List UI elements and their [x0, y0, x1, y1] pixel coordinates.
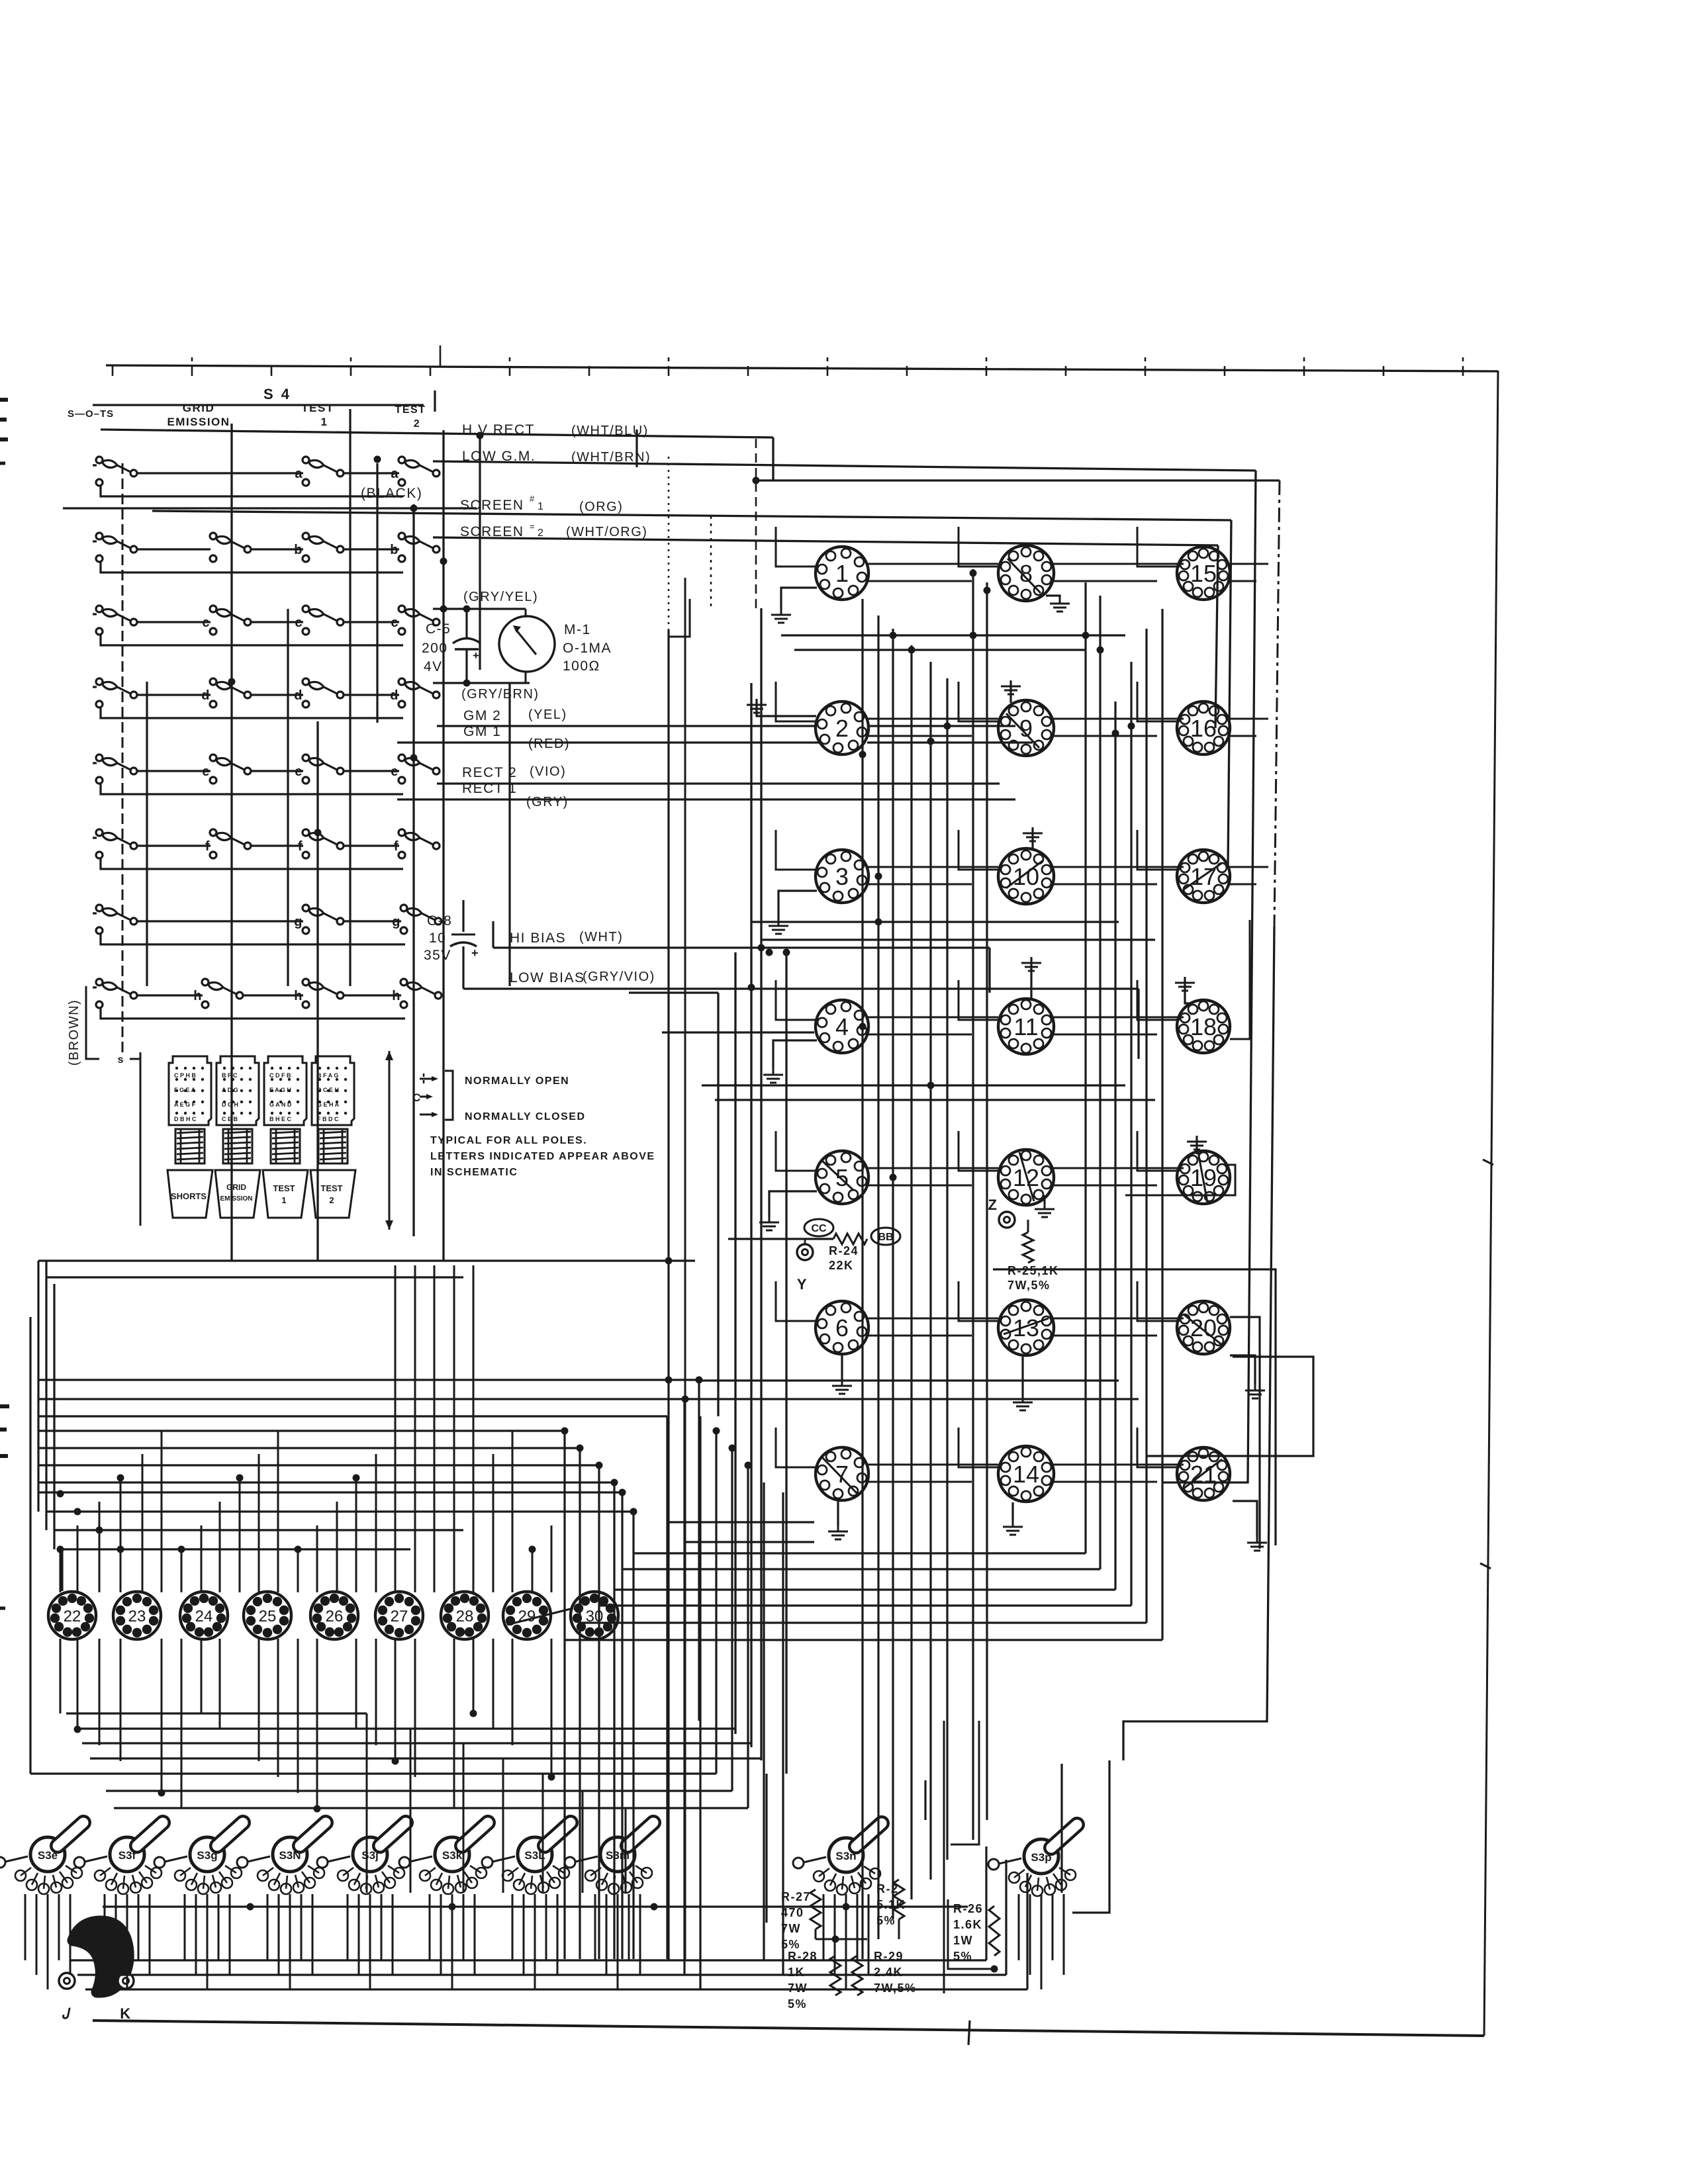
wire — [594, 1894, 596, 1960]
wire — [986, 582, 988, 1820]
svg-text:TEST: TEST — [273, 1183, 295, 1193]
wire — [1130, 662, 1132, 1606]
wire bus vertical (brown dashed) — [122, 463, 124, 1054]
wire — [525, 609, 527, 617]
tube socket 5 — [816, 1151, 868, 1204]
wire — [866, 1481, 972, 1483]
wire — [565, 1639, 1162, 1641]
ground socket 11 — [1021, 957, 1041, 971]
wire — [579, 1448, 581, 1959]
wire — [442, 430, 444, 1261]
wire — [929, 662, 931, 1880]
wire — [1046, 596, 1060, 598]
junction — [596, 1462, 603, 1469]
svg-text:B H E C: B H E C — [269, 1116, 292, 1122]
svg-text:24: 24 — [195, 1608, 213, 1625]
wire — [776, 682, 818, 721]
junction — [696, 1377, 703, 1384]
wire — [38, 1447, 580, 1449]
wire — [45, 1261, 47, 1530]
wire — [429, 1894, 431, 1960]
rotary S3m wiper terminal — [565, 1857, 575, 1868]
svg-text:K: K — [120, 2005, 131, 2022]
wire — [508, 683, 510, 986]
wire — [763, 1482, 765, 1960]
wire — [815, 1929, 817, 1939]
wire — [316, 721, 318, 1261]
svg-text:TEST: TEST — [301, 402, 334, 414]
svg-text:2: 2 — [329, 1195, 334, 1205]
rotary S3L contacts — [502, 1866, 569, 1894]
svg-text:100Ω: 100Ω — [563, 659, 600, 674]
wire — [1060, 1764, 1062, 1893]
wire — [557, 1894, 559, 1975]
row a lead wire — [93, 464, 97, 466]
wire meter top — [433, 608, 526, 610]
svg-text:TEST: TEST — [320, 1183, 342, 1193]
wire — [1021, 1357, 1023, 1396]
svg-text:B F A G: B F A G — [317, 1072, 338, 1079]
capacitor C-8 — [462, 900, 464, 932]
svg-text:B F C: B F C — [222, 1072, 238, 1079]
wire — [866, 718, 998, 720]
net LOW BIAS wire — [463, 987, 1139, 989]
tube socket 24 — [180, 1592, 228, 1639]
border bottom tick — [968, 2021, 970, 2045]
junction — [984, 587, 991, 594]
scan mark — [0, 418, 7, 422]
wire — [750, 683, 752, 1747]
wire — [599, 1604, 1131, 1606]
wire — [474, 1894, 476, 1975]
wire — [229, 1894, 231, 1975]
wire — [267, 1894, 269, 1960]
svg-text:1K: 1K — [788, 1966, 805, 1979]
wire — [563, 1431, 565, 1959]
row e pole wires — [137, 770, 211, 772]
ground socket 13 — [1013, 1396, 1033, 1410]
wire — [29, 1317, 31, 1774]
junction — [859, 751, 867, 758]
wire — [1145, 629, 1147, 1623]
wire — [542, 1774, 544, 1893]
wire — [1137, 989, 1139, 1059]
junction — [970, 570, 977, 577]
junction — [158, 1790, 165, 1797]
svg-text:S―O–TS: S―O–TS — [68, 408, 114, 420]
wire — [776, 1281, 818, 1321]
junction — [247, 1903, 254, 1911]
svg-text:10: 10 — [429, 931, 446, 946]
wire — [778, 891, 817, 920]
switch contact — [96, 829, 137, 858]
wire — [841, 1354, 843, 1380]
resistor R-28 — [830, 1956, 841, 1995]
wire — [369, 1894, 371, 1989]
svg-text:5%: 5% — [876, 1914, 896, 1927]
wire — [699, 1416, 701, 1989]
border bottom — [93, 2021, 1484, 2036]
wire — [1227, 884, 1256, 886]
wire — [453, 1265, 455, 1592]
wire — [776, 1131, 818, 1171]
net H.V RECT wire — [101, 430, 773, 437]
svg-text:E A G H: E A G H — [269, 1087, 291, 1093]
scan mark — [0, 1454, 8, 1458]
wire — [598, 1465, 600, 1959]
rotary S3k contacts — [420, 1866, 487, 1894]
rotary S3n contacts — [814, 1866, 880, 1895]
junction — [944, 723, 951, 730]
wire — [70, 1894, 71, 1975]
wire — [760, 608, 762, 1760]
svg-text:GM 2: GM 2 — [463, 708, 501, 723]
wire S3p enclosure — [1072, 1760, 1109, 1913]
row f pole wires — [137, 844, 211, 846]
junction — [74, 1726, 81, 1733]
wire — [747, 1465, 749, 1808]
svg-text:D G H: D G H — [222, 1101, 238, 1108]
wire — [1051, 1185, 1157, 1187]
svg-text:3: 3 — [835, 863, 849, 890]
wire — [492, 1454, 494, 1592]
wire — [951, 1721, 979, 1844]
wire — [207, 1894, 209, 1989]
wire — [669, 1521, 814, 1523]
junction — [665, 1377, 673, 1384]
rotary switch S3f — [110, 1823, 163, 1872]
wire — [58, 1894, 60, 1960]
svg-text:11: 11 — [1013, 1013, 1038, 1040]
svg-text:TYPICAL FOR ALL POLES.: TYPICAL FOR ALL POLES. — [430, 1135, 587, 1146]
row e lead wire — [93, 762, 97, 764]
wire — [38, 1415, 667, 1417]
wire — [769, 1191, 817, 1216]
wire — [1005, 1860, 1007, 1975]
wire — [1147, 1357, 1313, 1456]
row g lead wire — [93, 912, 97, 914]
svg-text:R-26: R-26 — [953, 1902, 983, 1915]
wire — [580, 1621, 1147, 1623]
svg-text:10: 10 — [1013, 863, 1039, 890]
resistor R-29 — [852, 1956, 863, 1995]
svg-text:R-27: R-27 — [781, 1890, 811, 1903]
rotary S3L wiper terminal — [482, 1857, 492, 1868]
ground socket 9 — [1001, 680, 1021, 694]
net GM2 wire — [437, 725, 814, 727]
switch contact b — [303, 533, 344, 562]
pushbutton cap TEST — [263, 1170, 308, 1218]
wire — [66, 1712, 367, 1714]
svg-text:5%: 5% — [788, 1997, 807, 2011]
wire — [85, 1988, 1027, 1990]
wire — [1011, 1502, 1013, 1521]
junction — [577, 1445, 584, 1452]
svg-text:𝐽: 𝐽 — [62, 2005, 71, 2022]
junction — [758, 944, 765, 952]
wire — [606, 1894, 608, 1975]
wire — [201, 1525, 203, 1592]
switch contact f — [210, 829, 251, 858]
switch contact — [96, 606, 137, 635]
wire — [114, 1807, 748, 1809]
wire — [776, 527, 818, 567]
tube socket 17 — [1177, 850, 1230, 903]
svg-text:7W,5%: 7W,5% — [874, 1981, 917, 1995]
wire — [60, 1639, 62, 1713]
legend normally-open symbol — [423, 1073, 425, 1084]
svg-text:23: 23 — [128, 1608, 146, 1625]
wire — [628, 1894, 630, 1960]
wire — [355, 1639, 357, 1729]
wire — [502, 1758, 504, 1893]
junction — [713, 1428, 720, 1435]
wire — [1029, 1894, 1031, 1975]
S4 header line — [93, 404, 424, 406]
wire — [512, 1430, 514, 1592]
svg-text:22: 22 — [64, 1608, 81, 1625]
junction — [753, 477, 760, 484]
capacitor C-5 — [465, 609, 467, 637]
svg-text:2: 2 — [538, 527, 544, 539]
rotary switch S3e — [30, 1823, 83, 1872]
tube socket 28 — [441, 1592, 489, 1639]
wire — [943, 1721, 945, 1993]
svg-text:A D G: A D G — [222, 1087, 238, 1093]
wire — [861, 599, 863, 1959]
wire — [301, 1894, 303, 1960]
rotary switch S3g — [190, 1823, 243, 1872]
rotary switch S3n — [829, 1823, 882, 1872]
svg-text:(BROWN): (BROWN) — [67, 999, 81, 1066]
wire — [218, 1894, 220, 1960]
svg-text:17: 17 — [1190, 863, 1217, 890]
svg-text:1W: 1W — [953, 1934, 973, 1947]
net HI BIAS wire — [493, 946, 990, 948]
svg-text:9: 9 — [1019, 715, 1033, 742]
ground socket 7 — [828, 1525, 848, 1539]
wire — [38, 1464, 599, 1466]
wire — [785, 952, 787, 1774]
rotary S3p contacts — [1009, 1868, 1076, 1896]
svg-text:(WHT): (WHT) — [579, 930, 623, 944]
resistor R-26 — [989, 1906, 1000, 1956]
wire — [1051, 1335, 1157, 1337]
switch contact a — [303, 457, 344, 486]
tube socket 16 — [1177, 702, 1230, 754]
svg-text:EMISSION: EMISSION — [220, 1195, 253, 1203]
wire — [898, 1919, 900, 1939]
wire — [613, 1482, 615, 1959]
wire — [38, 1259, 695, 1261]
wire — [453, 1639, 455, 1809]
wire — [24, 1894, 26, 1960]
svg-text:1: 1 — [538, 501, 544, 512]
wire — [239, 1478, 241, 1592]
switch contact c — [303, 606, 344, 635]
resistor R-2 — [894, 1880, 904, 1919]
ground socket 1 — [771, 609, 791, 623]
wire — [381, 1894, 383, 1960]
svg-text:15: 15 — [1190, 560, 1217, 587]
svg-text:S3N: S3N — [279, 1849, 301, 1862]
wire — [666, 1416, 668, 1959]
wire — [866, 1167, 998, 1169]
svg-text:6: 6 — [835, 1314, 849, 1342]
ground socket 14 — [1003, 1521, 1023, 1535]
wire — [181, 1639, 183, 1809]
switch contact a — [399, 457, 440, 486]
rotary S3g wiper terminal — [154, 1857, 165, 1868]
wire — [440, 1894, 442, 1975]
svg-text:(GRY/YEL): (GRY/YEL) — [463, 590, 538, 604]
svg-text:RECT 2: RECT 2 — [462, 765, 517, 780]
svg-text:C-8: C-8 — [427, 913, 452, 929]
scan mark — [0, 1428, 7, 1432]
svg-text:S3f: S3f — [118, 1849, 136, 1862]
wire — [46, 1510, 633, 1512]
wire — [866, 1464, 998, 1466]
row a pole wires — [137, 472, 303, 474]
wire — [181, 1549, 183, 1592]
terminal CC — [804, 1219, 833, 1236]
svg-text:S 4: S 4 — [263, 386, 291, 402]
tube socket 8 — [998, 545, 1054, 601]
resistor R-27 — [810, 1889, 821, 1929]
wire — [1030, 958, 1032, 999]
row c lead wire — [93, 613, 97, 615]
tube socket 9 — [998, 700, 1054, 756]
svg-text:1: 1 — [835, 560, 849, 587]
svg-text:S3e: S3e — [38, 1849, 58, 1862]
junction — [548, 1774, 555, 1781]
rotary S3f contacts — [95, 1866, 162, 1894]
svg-text:SHORTS: SHORTS — [171, 1191, 207, 1201]
junction — [295, 1546, 302, 1553]
svg-text:4: 4 — [835, 1013, 849, 1040]
resistor R-24 — [833, 1234, 867, 1244]
wire — [142, 1454, 144, 1592]
switch contact d — [210, 678, 251, 707]
wire — [161, 1430, 163, 1592]
wire — [1099, 596, 1101, 1569]
wire — [126, 1894, 128, 1989]
tube socket 26 — [310, 1592, 358, 1639]
tube socket 30 — [571, 1592, 618, 1639]
wire — [866, 1034, 972, 1036]
wire — [38, 1430, 565, 1432]
switch contact — [96, 457, 137, 486]
tube socket 2 — [816, 702, 868, 754]
relay module TEST 2 — [312, 1056, 354, 1125]
switch contact e — [210, 754, 251, 784]
wire — [297, 1639, 299, 1793]
rotary S3N wiper terminal — [237, 1857, 248, 1868]
rotary S3p wiper terminal — [988, 1859, 999, 1870]
rotary S3j contacts — [338, 1866, 404, 1894]
wire — [38, 1398, 783, 1400]
switch contact h — [202, 979, 243, 1008]
svg-text:27: 27 — [391, 1608, 408, 1625]
wire — [1227, 580, 1256, 582]
svg-text:7W,5%: 7W,5% — [1008, 1279, 1051, 1292]
wire — [621, 1492, 623, 1959]
wire — [473, 1265, 475, 1592]
wire — [375, 1639, 377, 1745]
wire — [1137, 1131, 1180, 1171]
wire — [698, 1380, 700, 1721]
svg-text:1: 1 — [321, 416, 328, 428]
junction — [463, 606, 471, 613]
wire — [667, 1382, 669, 1960]
wire — [699, 1379, 1119, 1381]
wire — [1031, 829, 1033, 848]
wire — [138, 1894, 140, 1960]
rotary switch S3j — [353, 1823, 406, 1872]
net RECT2 wire — [437, 782, 1000, 784]
wire — [1230, 1355, 1255, 1385]
junction — [440, 558, 447, 565]
wire — [38, 1491, 622, 1493]
wire — [1125, 1165, 1235, 1195]
svg-text:(VIO): (VIO) — [530, 764, 566, 779]
row b lead wire — [93, 540, 97, 542]
wire — [258, 1639, 260, 1761]
svg-text:2: 2 — [414, 418, 420, 430]
wire — [77, 1974, 1006, 1976]
wire — [761, 938, 1155, 940]
tube socket 21 — [1177, 1447, 1230, 1500]
wire — [38, 1379, 699, 1381]
svg-text:35V: 35V — [424, 948, 451, 963]
wire — [1018, 1894, 1020, 1960]
wire — [512, 1639, 514, 1745]
junction — [1082, 632, 1090, 639]
junction — [353, 1475, 360, 1482]
svg-text:TEST: TEST — [395, 404, 426, 416]
wire — [1114, 702, 1116, 1590]
wire — [684, 578, 686, 1959]
wire — [756, 479, 1280, 481]
svg-text:R-29: R-29 — [874, 1950, 904, 1963]
wire — [866, 563, 998, 565]
terminal Y — [797, 1244, 813, 1260]
svg-text:16: 16 — [1190, 715, 1217, 742]
wire — [1051, 1034, 1157, 1036]
row c pole wires — [137, 621, 211, 623]
wire — [53, 1284, 55, 1549]
wire — [867, 741, 1033, 743]
svg-text:IN SCHEMATIC: IN SCHEMATIC — [430, 1167, 518, 1178]
svg-text:(YEL): (YEL) — [528, 707, 567, 722]
wire — [866, 884, 972, 886]
junction — [908, 647, 915, 654]
svg-text:18: 18 — [1190, 1013, 1217, 1040]
wire — [734, 952, 736, 1734]
wire — [463, 1894, 465, 1960]
wire — [38, 1481, 614, 1483]
junction — [561, 1428, 569, 1435]
junction — [927, 1082, 935, 1089]
wire — [1215, 545, 1218, 728]
wire — [1051, 580, 1157, 582]
wire — [36, 1894, 38, 1975]
junction — [619, 1489, 626, 1496]
junction — [117, 1475, 124, 1482]
wire — [1051, 866, 1184, 868]
svg-text:F G E A: F G E A — [174, 1087, 196, 1093]
svg-text:#: # — [530, 494, 536, 504]
